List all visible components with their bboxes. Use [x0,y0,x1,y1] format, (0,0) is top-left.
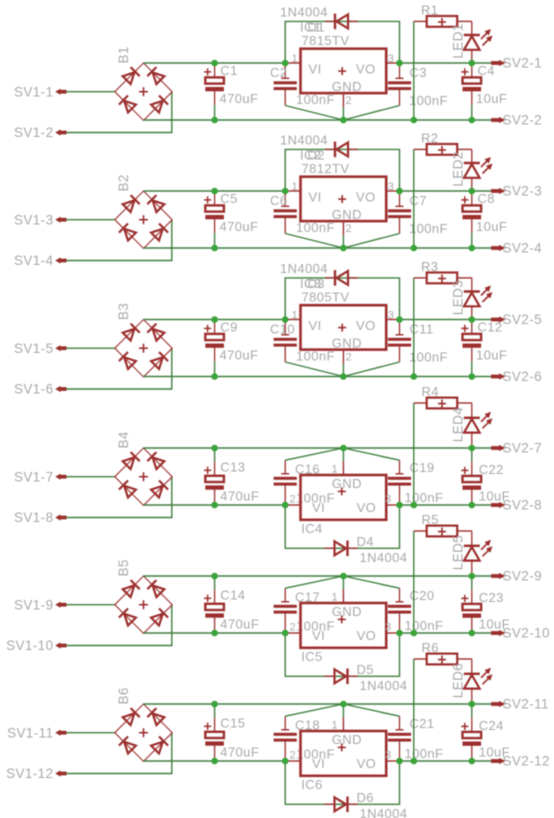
svg-text:470uF: 470uF [220,348,259,363]
wire GND rail row 1 [144,119,492,121]
wire SV1-5 to bridge B3 [66,347,115,349]
capacitor C9 470uF [204,320,258,377]
svg-text:SV1-5: SV1-5 [14,341,54,356]
wire SV1-4 to bridge B2 [66,220,172,261]
svg-text:2: 2 [289,621,296,633]
capacitor C21 100nF [388,716,443,761]
svg-text:1N4004: 1N4004 [280,132,328,147]
wire SV1-11 to bridge B6 [66,732,115,734]
voltage regulator IC6 [285,717,399,792]
svg-text:3: 3 [388,310,395,322]
connector pin SV2-5 [491,312,542,327]
LED1 [450,21,492,63]
voltage regulator IC4 [285,461,399,536]
diode D2 1N4004 [280,132,358,162]
svg-text:1N4004: 1N4004 [360,678,408,693]
svg-text:3: 3 [385,621,392,633]
wire C21 to GND [343,704,399,716]
svg-text:SV1-3: SV1-3 [14,212,54,227]
svg-text:7812TV: 7812TV [302,161,350,176]
capacitor C15 470uF [204,704,259,761]
svg-text:10uF: 10uF [476,91,507,106]
svg-text:D3: D3 [308,276,325,291]
svg-text:SV1-9: SV1-9 [14,597,54,612]
svg-text:C23: C23 [479,590,504,605]
svg-text:B3: B3 [116,303,131,320]
svg-text:2: 2 [289,493,296,505]
svg-text:SV2-2: SV2-2 [503,113,543,128]
svg-text:SV1-6: SV1-6 [14,382,54,397]
svg-text:D5: D5 [357,662,374,677]
svg-text:3: 3 [388,181,395,193]
svg-text:1N4004: 1N4004 [280,4,328,19]
svg-text:C3: C3 [410,65,427,80]
connector pin SV2-10 [491,626,550,641]
svg-text:SV2-1: SV2-1 [503,56,543,71]
wire diode rail D6 [285,761,399,804]
svg-text:470uF: 470uF [220,91,259,106]
svg-text:LED5: LED5 [450,535,465,570]
voltage regulator IC2 7812TV [285,148,399,236]
svg-text:C14: C14 [220,588,245,603]
wire SV1-7 to bridge B4 [66,476,115,478]
connector pin SV1-11 [7,725,66,740]
wire C10 to GND [285,362,343,377]
connector pin SV1-10 [6,638,66,653]
svg-text:C4: C4 [478,63,495,78]
wire SV1-2 to bridge B1 [66,92,172,133]
capacitor C1 470uF [204,63,258,120]
connector pin SV1-6 [14,382,67,397]
wire GND rail row 2 [144,247,492,249]
wire V rail row 5 [144,632,492,634]
wire V+ rail row 1 [144,62,492,64]
bridge rectifier B5 [115,559,172,633]
wire R2 to GND rail [413,149,415,248]
svg-text:SV1-8: SV1-8 [14,510,54,525]
capacitor C24 10uF [461,704,510,761]
connector pin SV2-4 [491,241,542,256]
svg-text:C5: C5 [220,191,237,206]
capacitor C2 100nF [270,63,335,107]
svg-text:B1: B1 [116,46,131,63]
wire GND pin IC1 to rail [342,107,344,120]
svg-text:470uF: 470uF [220,219,259,234]
svg-text:VI: VI [312,500,325,515]
bridge rectifier B4 [115,431,172,505]
svg-text:B2: B2 [116,174,131,191]
svg-text:C12: C12 [478,320,503,335]
wire C18 to GND [285,704,343,716]
wire diode rail D5 [285,633,399,676]
svg-text:GND: GND [332,336,362,351]
connector pin SV1-12 [6,766,66,781]
junction dots row 2 [211,188,475,252]
svg-text:C13: C13 [220,460,245,475]
svg-text:SV1-10: SV1-10 [6,638,53,653]
svg-text:1: 1 [331,464,338,476]
connector pin SV1-1 [14,84,67,99]
svg-text:SV2-4: SV2-4 [503,241,543,256]
svg-text:C10: C10 [270,322,295,337]
svg-text:SV2-3: SV2-3 [503,184,543,199]
svg-text:C22: C22 [479,462,504,477]
resistor R4 [414,384,472,408]
connector pin SV1-2 [14,125,67,140]
svg-text:LED2: LED2 [450,151,465,186]
svg-text:100nF: 100nF [405,746,444,761]
svg-text:SV2-5: SV2-5 [503,312,543,327]
svg-text:1: 1 [331,720,338,732]
connector pin SV2-7 [491,441,542,456]
wire R5 to V rail [413,531,415,633]
svg-text:470uF: 470uF [220,745,259,760]
capacitor C10 100nF [270,320,335,364]
junction dots row 1 [211,60,475,124]
wire diode rail D2 [285,149,399,191]
svg-text:SV2-12: SV2-12 [503,754,550,769]
svg-text:1N4004: 1N4004 [360,550,408,565]
connector pin SV1-3 [14,212,67,227]
diode D1 1N4004 [280,4,358,34]
wire C20 to GND [343,576,399,588]
diode D6 1N4004 [325,790,408,818]
LED2 [450,149,492,191]
svg-text:VI: VI [309,62,322,77]
wire V+ rail row 3 [144,319,492,321]
wire V rail row 4 [144,504,492,506]
connector pin SV2-6 [491,369,542,384]
svg-text:SV1-1: SV1-1 [14,84,54,99]
svg-text:100nF: 100nF [409,221,448,236]
svg-text:VI: VI [312,628,325,643]
svg-text:GND: GND [332,79,362,94]
svg-text:3: 3 [385,749,392,761]
svg-text:IC6: IC6 [301,777,322,792]
wire GND pin IC6 to rail [342,704,344,717]
svg-text:10uF: 10uF [476,219,507,234]
wire SV1-1 to bridge B1 [66,91,115,93]
svg-text:C1: C1 [220,63,237,78]
LED6 [450,659,492,704]
capacitor C22 10uF [461,448,510,505]
wire R6 to V rail [413,659,415,761]
svg-text:R3: R3 [421,259,438,274]
svg-text:D1: D1 [308,20,325,35]
wire C6 to GND [285,234,343,249]
svg-text:R2: R2 [421,131,438,146]
wire GND pin IC2 to rail [342,235,344,248]
svg-text:R4: R4 [422,384,439,399]
svg-text:C2: C2 [270,65,287,80]
wire R3 to GND rail [413,278,415,377]
junction dots row 5 [211,573,475,637]
svg-text:LED1: LED1 [450,23,465,58]
voltage regulator IC1 7815TV [285,20,399,108]
wire diode rail D1 [285,21,399,63]
svg-text:SV2-9: SV2-9 [503,569,543,584]
bridge rectifier B1 [115,46,172,120]
capacitor C8 10uF [461,191,507,248]
svg-text:1N4004: 1N4004 [360,806,408,818]
LED5 [450,531,492,576]
capacitor C23 10uF [461,576,510,633]
svg-text:470uF: 470uF [220,617,259,632]
svg-text:1: 1 [291,53,298,65]
svg-text:VO: VO [357,756,377,771]
connector pin SV1-8 [14,510,67,525]
wire diode rail D4 [285,505,399,548]
svg-text:GND: GND [332,604,362,619]
svg-text:C6: C6 [270,193,287,208]
svg-text:GND: GND [332,476,362,491]
svg-text:VO: VO [357,628,377,643]
wire V rail row 6 [144,760,492,762]
svg-text:VO: VO [356,318,376,333]
svg-text:SV2-11: SV2-11 [503,697,549,712]
svg-text:VO: VO [357,500,377,515]
capacitor C18 100nF [274,716,335,761]
voltage regulator IC5 [285,589,399,664]
resistor R5 [414,512,472,536]
capacitor C19 100nF [388,460,443,505]
connector pin SV1-5 [14,341,67,356]
wire SV1-8 to bridge B4 [66,477,172,518]
svg-text:VO: VO [356,62,376,77]
wire SV1-12 to bridge B6 [66,733,172,774]
svg-text:SV2-8: SV2-8 [503,498,543,513]
svg-text:SV2-6: SV2-6 [503,369,543,384]
svg-text:VO: VO [356,190,376,205]
svg-text:2: 2 [289,749,296,761]
svg-text:IC4: IC4 [301,521,322,536]
svg-text:VI: VI [309,318,322,333]
wire C7 to GND [343,234,399,249]
connector pin SV2-1 [491,56,542,71]
svg-text:LED4: LED4 [450,407,465,442]
svg-text:7805TV: 7805TV [302,289,350,304]
wire SV1-10 to bridge B5 [66,605,172,646]
LED3 [450,278,492,320]
svg-text:R5: R5 [422,512,439,527]
svg-text:1N4004: 1N4004 [280,261,328,276]
svg-text:1: 1 [331,592,338,604]
svg-text:2: 2 [346,352,353,364]
svg-text:3: 3 [385,493,392,505]
connector pin SV2-9 [491,569,542,584]
svg-text:C24: C24 [479,718,504,733]
wire diode rail D3 [285,278,399,320]
connector pin SV1-4 [14,253,67,268]
svg-text:B6: B6 [116,687,131,704]
capacitor C20 100nF [388,588,443,633]
svg-text:LED6: LED6 [450,663,465,698]
capacitor C12 10uF [461,320,507,377]
wire C11 to GND [343,362,399,377]
svg-text:B5: B5 [116,559,131,576]
junction dots row 4 [211,445,475,509]
svg-text:SV1-11: SV1-11 [7,725,53,740]
wire GND rail row 6 [144,703,492,705]
junction dots row 6 [211,701,475,765]
svg-text:SV2-7: SV2-7 [503,441,543,456]
bridge rectifier B6 [115,687,172,761]
svg-text:100nF: 100nF [405,618,444,633]
wire C2 to GND [285,106,343,121]
svg-text:100nF: 100nF [405,490,444,505]
svg-text:C8: C8 [478,191,495,206]
connector pin SV1-9 [14,597,67,612]
bridge rectifier B2 [115,174,172,248]
svg-text:2: 2 [346,95,353,107]
capacitor C11 100nF [388,320,448,365]
capacitor C17 100nF [274,588,335,633]
svg-text:C15: C15 [220,716,245,731]
svg-text:SV1-4: SV1-4 [14,253,54,268]
resistor R3 [414,259,472,283]
svg-text:100nF: 100nF [409,93,448,108]
wire GND rail row 4 [144,447,492,449]
svg-text:3: 3 [388,53,395,65]
capacitor C6 100nF [270,191,335,235]
wire C16 to GND [285,448,343,460]
svg-text:C7: C7 [410,193,427,208]
wire GND rail row 3 [144,376,492,378]
wire GND pin IC5 to rail [342,576,344,589]
junction dots row 3 [211,316,475,380]
wire GND rail row 5 [144,575,492,577]
svg-text:GND: GND [332,207,362,222]
resistor R1 [414,3,472,27]
diode D4 1N4004 [325,534,408,565]
svg-text:GND: GND [332,732,362,747]
connector pin SV2-11 [491,697,549,712]
capacitor C4 10uF [461,63,507,120]
svg-text:B4: B4 [116,431,131,448]
wire V+ rail row 2 [144,190,492,192]
svg-text:1: 1 [291,181,298,193]
svg-text:470uF: 470uF [220,489,259,504]
svg-text:100nF: 100nF [409,350,448,365]
svg-text:D6: D6 [357,790,374,805]
capacitor C16 100nF [274,460,335,505]
svg-text:10uF: 10uF [476,348,507,363]
svg-text:R6: R6 [422,640,439,655]
capacitor C14 470uF [204,576,259,633]
wire SV1-6 to bridge B3 [66,348,172,389]
svg-text:LED3: LED3 [450,280,465,315]
connector pin SV2-8 [491,498,542,513]
connector pin SV1-7 [14,469,67,484]
svg-text:VI: VI [312,756,325,771]
svg-text:IC5: IC5 [301,649,322,664]
wire GND pin IC4 to rail [342,448,344,461]
svg-text:D2: D2 [308,148,325,163]
connector pin SV2-2 [491,113,542,128]
diode D5 1N4004 [325,662,408,693]
connector pin SV2-12 [491,754,550,769]
voltage regulator IC3 7805TV [285,276,399,364]
wire C3 to GND [343,106,399,121]
capacitor C5 470uF [204,191,258,248]
svg-text:SV1-7: SV1-7 [14,469,54,484]
wire C19 to GND [343,448,399,460]
svg-text:2: 2 [346,223,353,235]
wire R1 to GND rail [413,21,415,120]
wire C17 to GND [285,576,343,588]
capacitor C13 470uF [204,448,259,505]
svg-text:7815TV: 7815TV [302,33,350,48]
wire SV1-3 to bridge B2 [66,219,115,221]
svg-text:D4: D4 [357,534,374,549]
svg-text:SV1-2: SV1-2 [14,125,54,140]
svg-text:C9: C9 [220,320,237,335]
svg-text:SV2-10: SV2-10 [503,626,550,641]
resistor R6 [414,640,472,664]
svg-text:VI: VI [309,190,322,205]
connector pin SV2-3 [491,184,542,199]
svg-text:R1: R1 [421,3,438,18]
capacitor C3 100nF [388,63,448,108]
svg-text:1: 1 [291,310,298,322]
wire GND pin IC3 to rail [342,364,344,377]
diode D3 1N4004 [280,261,358,291]
capacitor C7 100nF [388,191,448,236]
LED4 [450,403,492,448]
bridge rectifier B3 [115,303,172,377]
svg-text:SV1-12: SV1-12 [6,766,53,781]
wire SV1-9 to bridge B5 [66,604,115,606]
wire R4 to V rail [413,403,415,505]
resistor R2 [414,131,472,155]
